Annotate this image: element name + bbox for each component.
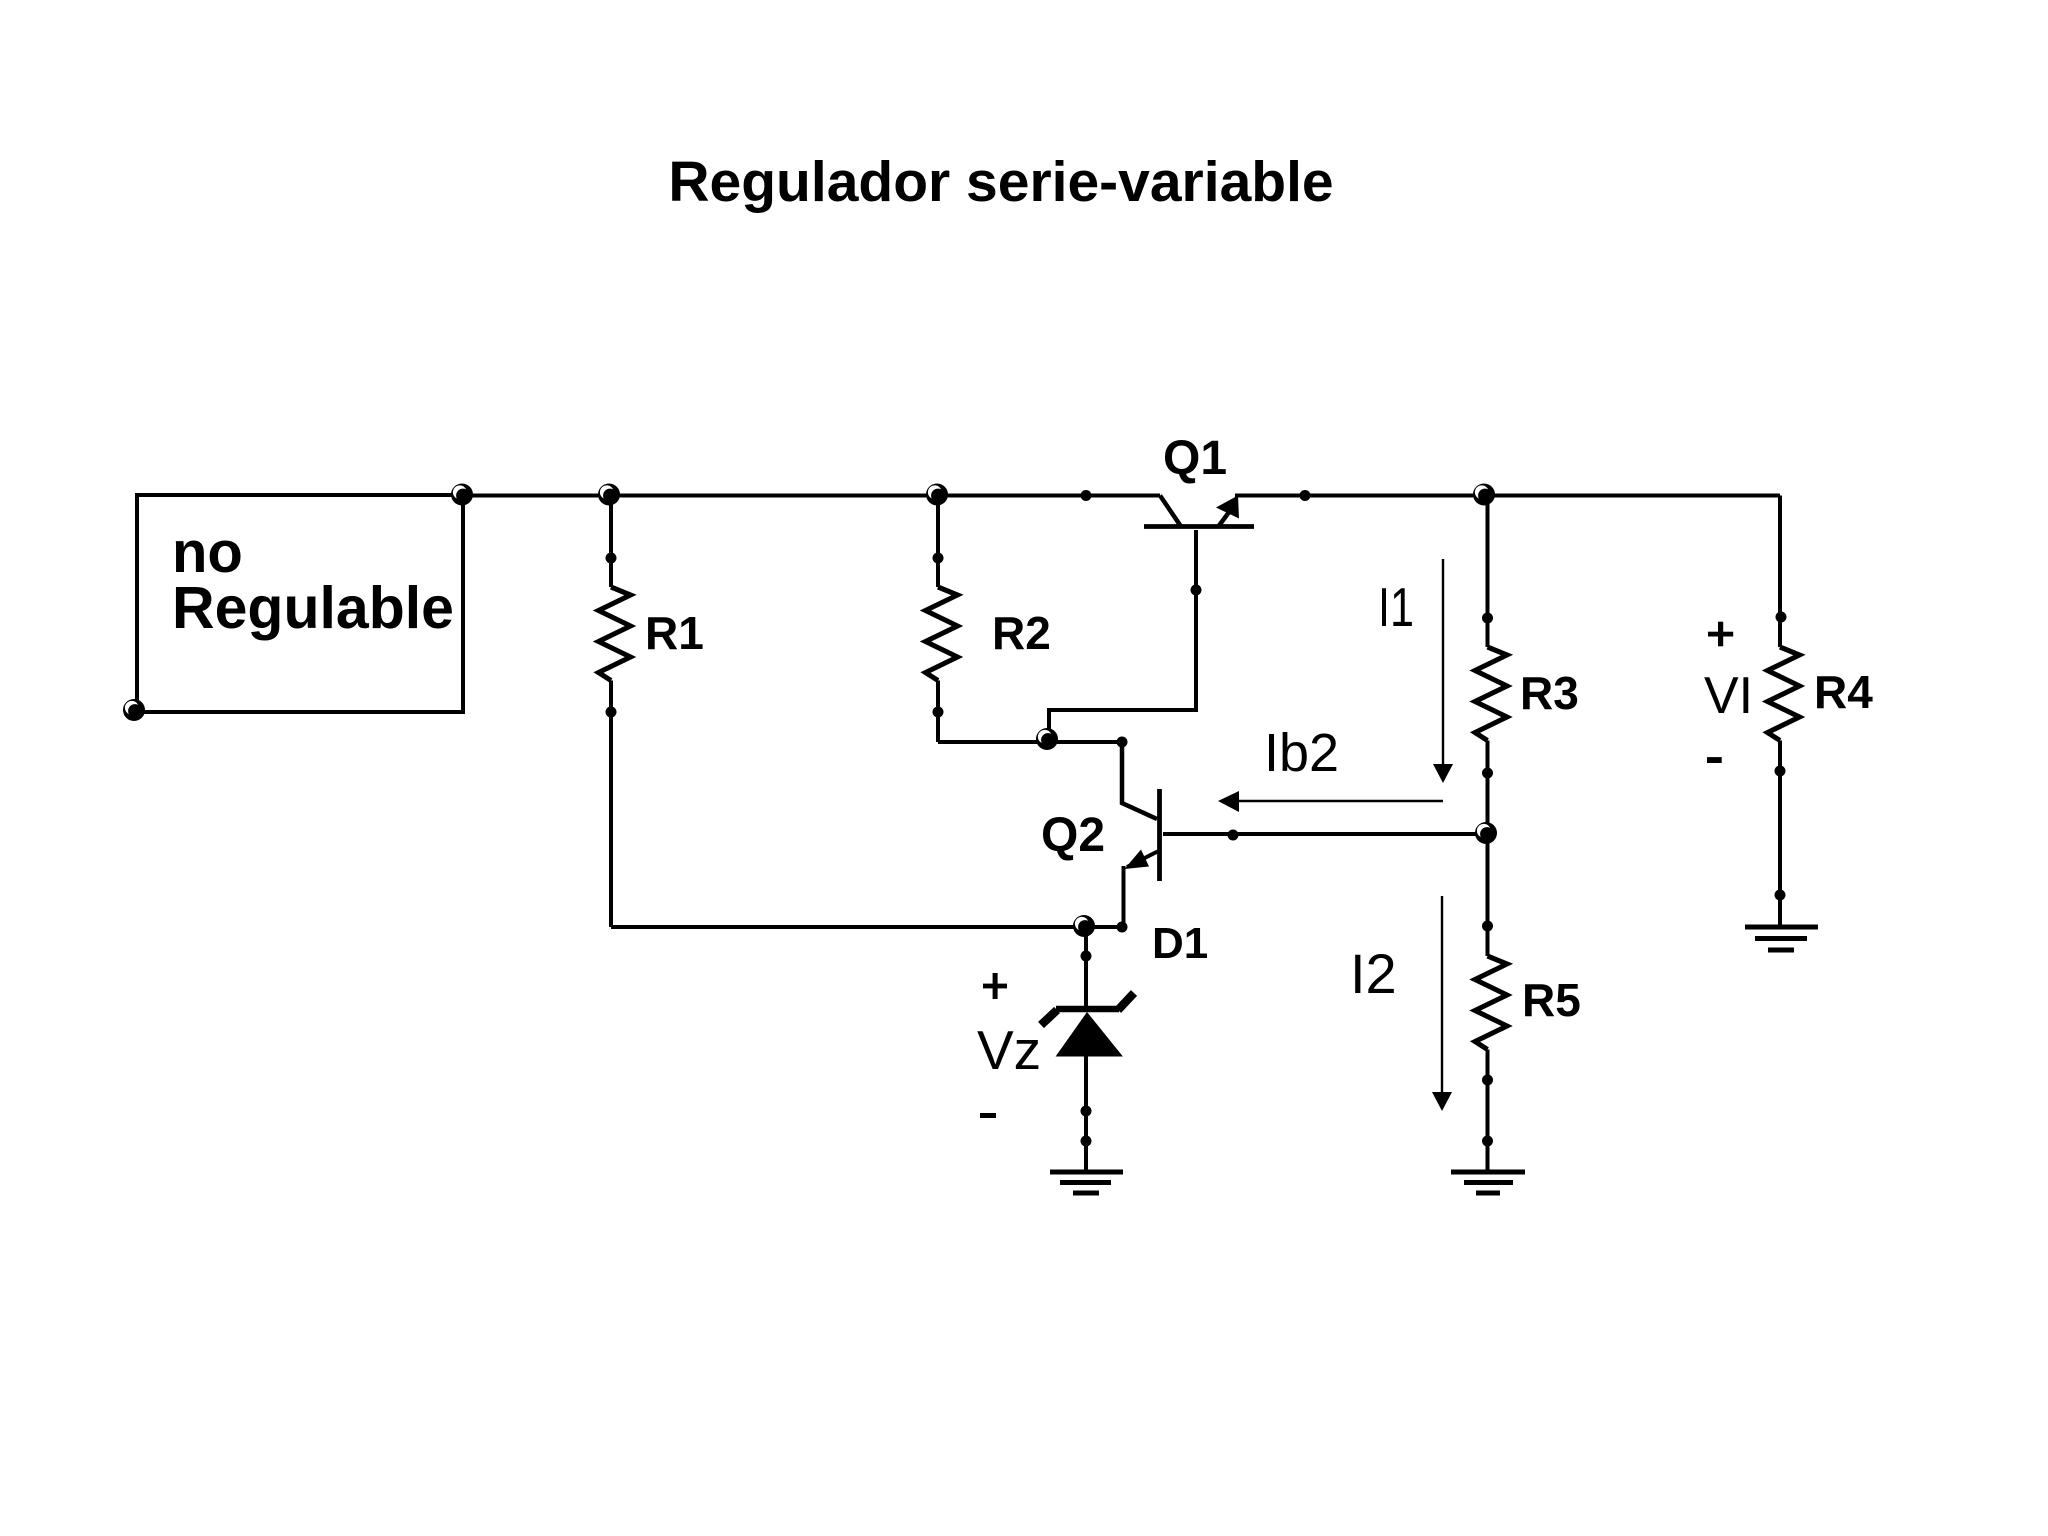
junction pin R2/Q1 base node bbox=[1036, 728, 1058, 750]
zener diode D1 bbox=[1041, 919, 1208, 1172]
box no Regulable bbox=[137, 495, 463, 712]
wire top rail right bbox=[1235, 494, 1780, 498]
junction pin Q2 base node bbox=[1475, 822, 1497, 844]
svg-text:Regulador serie-variable: Regulador serie-variable bbox=[668, 150, 1333, 214]
wire Q2 base to R3/R5 node bbox=[1163, 832, 1486, 836]
svg-text:R4: R4 bbox=[1814, 666, 1873, 718]
node dot Q2 base wire bbox=[1228, 830, 1239, 841]
node dot R4 bottom bbox=[1775, 766, 1786, 777]
resistor R4 bbox=[1768, 647, 1874, 927]
node dot zener bottom 1 bbox=[1081, 1106, 1092, 1117]
svg-text:R5: R5 bbox=[1522, 974, 1581, 1026]
svg-text:R1: R1 bbox=[645, 607, 704, 659]
node dot R2 top bbox=[933, 553, 944, 564]
node dot Q2 emitter bottom bbox=[1117, 922, 1128, 933]
resistor R2 bbox=[926, 496, 1051, 743]
node dot rail right bbox=[1300, 490, 1311, 501]
node dot R3 bottom bbox=[1482, 768, 1493, 779]
current arrow I2 bbox=[1350, 896, 1452, 1111]
node dot R5 top bbox=[1482, 921, 1493, 932]
resistor R1 bbox=[599, 496, 704, 928]
junction pin top of box bbox=[451, 484, 473, 506]
node dot Q1 base lead bbox=[1191, 585, 1202, 596]
svg-text:Regulable: Regulable bbox=[172, 575, 454, 641]
wire R2 bottom to Q2 collector node bbox=[938, 740, 1122, 744]
svg-text:VI: VI bbox=[1704, 667, 1753, 725]
node dot R5 bottom bbox=[1482, 1075, 1493, 1086]
svg-text:Ib2: Ib2 bbox=[1264, 723, 1339, 783]
label + VI - bbox=[1704, 622, 1753, 763]
node dot Q2 collector top bbox=[1117, 737, 1128, 748]
junction pin bottom-left of box bbox=[123, 699, 145, 721]
node dot R1 bottom bbox=[606, 707, 617, 718]
svg-text:Vz: Vz bbox=[977, 1019, 1041, 1081]
svg-text:I2: I2 bbox=[1350, 942, 1397, 1005]
node dot R5 gnd bbox=[1482, 1136, 1493, 1147]
wire emitter rail y=927 bbox=[611, 925, 1122, 929]
node dot R3 top bbox=[1482, 613, 1493, 624]
svg-text:R3: R3 bbox=[1520, 667, 1579, 719]
junction pin top of R2 bbox=[926, 484, 948, 506]
svg-text:Q2: Q2 bbox=[1041, 809, 1105, 862]
junction pin top of R1 bbox=[598, 484, 620, 506]
ground (below R4) bbox=[1745, 927, 1818, 950]
label + Vz - bbox=[977, 973, 1041, 1118]
svg-text:Q1: Q1 bbox=[1163, 432, 1227, 485]
svg-text:R2: R2 bbox=[992, 607, 1051, 659]
current arrow Ib2 bbox=[1218, 723, 1443, 812]
node dot rail bbox=[1081, 490, 1092, 501]
svg-text:D1: D1 bbox=[1152, 919, 1208, 968]
junction pin top of R3 bbox=[1473, 484, 1495, 506]
node dot R4 gnd bbox=[1775, 890, 1786, 901]
node dot R4 top bbox=[1776, 612, 1787, 623]
wire right edge down to R4 bbox=[1778, 496, 1782, 648]
resistor R5 bbox=[1475, 833, 1581, 1172]
node dot zener top bbox=[1081, 951, 1092, 962]
current arrow I1 bbox=[1378, 559, 1453, 783]
node dot R1 top bbox=[606, 553, 617, 564]
node dot R2 bottom bbox=[933, 707, 944, 718]
ground (below D1) bbox=[1050, 1172, 1123, 1193]
resistor R3 bbox=[1475, 496, 1579, 834]
transistor Q1 bbox=[1144, 432, 1254, 527]
wire Q1 base lead bbox=[1049, 530, 1196, 739]
junction pin zener node bbox=[1073, 915, 1095, 937]
ground (below R5) bbox=[1451, 1172, 1525, 1193]
node dot zener bottom 2 bbox=[1081, 1136, 1092, 1147]
wire top rail left bbox=[462, 494, 1160, 498]
svg-text:I1: I1 bbox=[1378, 576, 1414, 638]
transistor Q2 bbox=[1041, 742, 1160, 927]
